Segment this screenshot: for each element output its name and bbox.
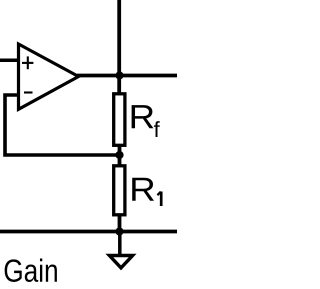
node: bottom rail junction dot [115, 227, 123, 235]
wire: stub to ground [118, 232, 122, 255]
resistor R1 [114, 166, 125, 215]
wire: R1 bottom to bottom rail [118, 214, 122, 232]
op-amp minus input marking [24, 91, 33, 93]
label Gain [5, 259, 22, 282]
wire: feedback from inverting input down and right to Rf/R1 node [5, 95, 120, 155]
op-amp U1 [19, 44, 79, 109]
op-amp plus input marking [22, 56, 33, 69]
wire: Rf bottom to node [118, 145, 122, 166]
wire: op-amp output to right edge [77, 74, 177, 78]
wire: bottom rail across full width [0, 230, 177, 234]
node: Rf/R1 junction dot [115, 151, 123, 159]
wire: vertical from top edge to output node [117, 0, 121, 93]
label R1 [132, 178, 161, 206]
resistor Rf [114, 94, 125, 146]
wire: non-inverting input from left edge [0, 58, 19, 62]
ground [105, 254, 136, 271]
node: output junction dot [115, 71, 123, 79]
label Rf [132, 105, 160, 137]
